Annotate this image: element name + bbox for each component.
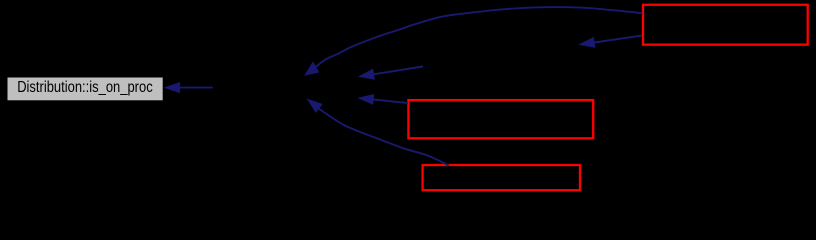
edge R3 -> A: [308, 99, 449, 165]
edge B -> A: [359, 67, 423, 80]
node R3 (red, bottom): [423, 165, 580, 190]
node R2 (red, middle): [408, 100, 593, 138]
node B (hidden caller, black on black): [423, 42, 586, 66]
edge R1 -> B: [580, 36, 642, 48]
node R1 (red, top right): [643, 5, 808, 45]
node A (hidden caller, black on black): [213, 77, 361, 101]
node Distribution::is_on_proc (current, grey): [7, 77, 163, 101]
svg-text:Distribution::is_on_proc: Distribution::is_on_proc: [17, 79, 153, 96]
edge R1 -> A (long top curve): [305, 7, 642, 75]
edge A -> is_on_proc: [165, 83, 213, 93]
edge R2 -> A: [359, 95, 408, 105]
